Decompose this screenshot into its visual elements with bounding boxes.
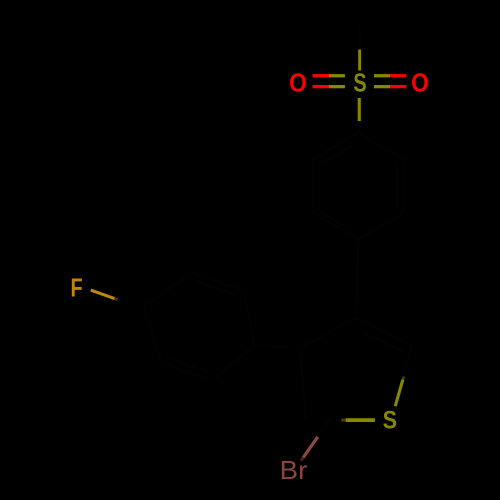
svg-text:O: O: [289, 67, 307, 97]
benzene ring1: [313, 133, 405, 239]
svg-text:F: F: [71, 272, 83, 302]
wire Br bond C half: [318, 417, 332, 437]
F-C bond (goldenrod half): [91, 290, 115, 299]
thiophene S-C5 fade tip: [341, 419, 345, 422]
svg-text:O: O: [411, 67, 429, 97]
thiophene S-C5 bond (olive half): [346, 418, 375, 422]
S=O right double bond, olive halves: [374, 74, 390, 77]
svg-text:S: S: [353, 67, 366, 97]
C5-Br bond (Br-colored half): [303, 437, 318, 458]
svg-text:S: S: [383, 408, 397, 435]
sulfonyl S to ring1 bond (olive half): [358, 98, 361, 121]
thiophene S-C2 bond (olive half): [395, 380, 403, 407]
thiophene ring carbons: [300, 318, 412, 420]
fluorophenyl ring: [144, 273, 254, 381]
wire biaryl bond ring1-thiophene: [356, 239, 359, 318]
wire methyl C half: [358, 28, 361, 50]
thiophene S-C2 fade tip: [403, 377, 404, 380]
S=O left double bond, olive halves: [329, 74, 345, 77]
S=O left double bond, red halves: [313, 74, 330, 77]
methyl-S bond (olive half): [358, 50, 361, 71]
wire fluorophenyl-thiophene bond: [254, 345, 300, 348]
faint carbon skeleton (near-invisible dark strokes): [144, 28, 412, 437]
S=O right double bond, red halves: [390, 74, 406, 77]
C5-Br bond fade tip near label: [301, 458, 303, 461]
F-C bond fade tip: [115, 299, 118, 300]
wire S-ring1 C half: [357, 121, 360, 133]
